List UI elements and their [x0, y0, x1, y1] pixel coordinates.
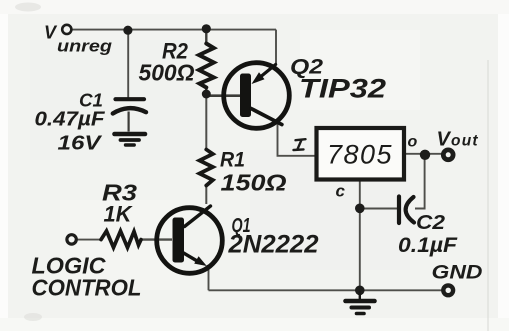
wire: logic terminal to R3: [77, 239, 101, 241]
junction Vout node: [420, 150, 430, 160]
svg-text:unreg: unreg: [57, 37, 113, 56]
pin label I (input): [294, 139, 306, 150]
terminal Vout: [443, 150, 453, 160]
paper crease line: [487, 60, 489, 331]
wire: 7805 output to Vout: [404, 153, 441, 155]
svg-text:CONTROL: CONTROL: [32, 275, 142, 301]
terminal LOGIC CONTROL: [67, 235, 76, 244]
resistor R2: [199, 44, 214, 88]
wire: drop from top rail to C1: [127, 31, 129, 98]
junction C2 / 7805 common: [355, 204, 365, 214]
wire: R2 top stub: [205, 31, 207, 44]
svg-text:7805: 7805: [327, 140, 393, 170]
wire: top rail from Vunreg terminal to corner: [72, 29, 276, 31]
svg-text:R1: R1: [220, 149, 245, 172]
svg-text:TIP32: TIP32: [299, 74, 386, 104]
svg-text:o: o: [408, 134, 418, 151]
junction bottom rail / ground: [355, 286, 365, 296]
svg-text:C2: C2: [416, 212, 445, 234]
wire: R2 bottom stub: [205, 87, 207, 94]
wire: Q2 collector down to 7805 input: [278, 124, 317, 156]
svg-text:500Ω: 500Ω: [139, 60, 195, 86]
wire: Q1 emitter down to bottom rail: [208, 266, 210, 290]
wire: bottom rail: [209, 289, 443, 291]
terminal Vunreg: [62, 25, 71, 34]
wire: R1 bottom to Q1 collector: [205, 185, 207, 204]
resistor R1: [200, 150, 213, 186]
junction top rail / R2: [202, 24, 211, 33]
svg-text:V: V: [44, 23, 58, 43]
ground symbol at bottom rail: [346, 292, 375, 314]
wire: ground node down to bottom rail: [359, 209, 361, 290]
svg-text:2N2222: 2N2222: [227, 231, 318, 259]
terminal GND: [443, 285, 453, 295]
wire: Vout node down to C2 right plate: [415, 156, 425, 209]
capacitor C2: [399, 197, 414, 224]
wire: C2 left plate to ground node: [360, 208, 398, 210]
svg-text:16V: 16V: [58, 133, 103, 155]
svg-text:0.47µF: 0.47µF: [35, 109, 106, 131]
wire: junction down to R1: [205, 96, 207, 150]
capacitor C1: [113, 99, 146, 131]
transistor Q2 (PNP TIP32): [224, 63, 290, 129]
junction top rail / C1: [123, 26, 132, 35]
wire: R3 to Q1 base: [140, 238, 172, 240]
regulator U1 7805 box: [317, 128, 405, 180]
resistor R3: [101, 231, 141, 248]
transistor Q1 (NPN 2N2222): [157, 206, 223, 273]
wire: top-right corner down to Q2 emitter: [275, 30, 277, 64]
svg-text:c: c: [336, 182, 346, 201]
svg-text:GND: GND: [432, 263, 483, 284]
junction R2 / Q2 base / R1: [202, 90, 211, 99]
wire: 7805 common pin down: [359, 180, 361, 208]
svg-text:Vout: Vout: [437, 129, 479, 151]
ground below C1: [115, 134, 146, 145]
svg-text:1K: 1K: [104, 202, 134, 227]
svg-text:C1: C1: [79, 91, 103, 111]
svg-text:150Ω: 150Ω: [221, 170, 287, 196]
svg-text:0.1µF: 0.1µF: [398, 234, 458, 257]
wire: Q2 base lead: [206, 94, 240, 97]
